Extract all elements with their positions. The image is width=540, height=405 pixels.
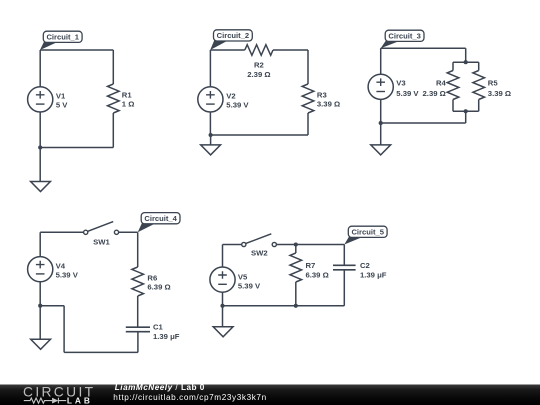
wire [209,50,211,87]
switch SW2 [242,234,277,247]
svg-text:1.39 μF: 1.39 μF [360,270,387,279]
wire [343,270,345,306]
CircuitLab logo squiggle wire with resistor and diode [24,398,66,404]
wire [40,231,83,233]
label Circuit_1 [40,31,82,50]
svg-text:6.39 Ω: 6.39 Ω [306,270,329,279]
value label V1 5 V [56,91,68,109]
wire [137,232,139,267]
svg-text:Circuit_1: Circuit_1 [46,32,79,41]
svg-text:1.39 μF: 1.39 μF [153,332,180,341]
label Circuit_4 [138,213,180,233]
wire [39,50,41,87]
wire [295,245,297,254]
wire [307,113,309,135]
capacitor C1 [126,327,150,332]
ground [371,145,391,155]
svg-text:5.39 V: 5.39 V [396,89,419,98]
wire [137,296,139,327]
svg-text:1 Ω: 1 Ω [122,100,135,109]
wire [137,332,139,353]
value label V2 5.39 V [226,91,249,109]
svg-text:http://circuitlab.com/cp7m23y3: http://circuitlab.com/cp7m23y3k3k7n [113,393,266,402]
wire [453,110,479,112]
wire [222,292,224,306]
value label V4 5.39 V [56,261,79,279]
wire [40,305,64,307]
node junction [38,304,42,308]
node junction [294,304,298,308]
node junction [379,121,383,125]
svg-text:R4: R4 [436,79,447,88]
svg-text:5.39 V: 5.39 V [56,271,79,280]
value label R5 3.39 Ω [488,79,511,98]
label Circuit_5 [344,226,387,244]
wire [223,305,345,307]
wire [452,100,454,112]
value label R4 2.39 Ω [423,79,447,98]
svg-text:5.39 V: 5.39 V [226,101,249,110]
ground [213,327,233,337]
footer url http://circuitlab.com/cp7m23y3k3k7n [113,393,266,402]
svg-text:V2: V2 [226,91,235,100]
svg-text:5.39 V: 5.39 V [238,282,261,291]
svg-text:R3: R3 [317,91,327,100]
value label R1 1 Ω [122,90,135,108]
wire [452,62,454,70]
value label R3 3.39 Ω [317,91,340,109]
wire [465,111,467,123]
wire [39,148,41,182]
wire [39,282,41,306]
voltage source V3 [368,74,393,99]
node junction [464,60,468,64]
voltage source V5 [210,267,235,292]
value label C2 1.39 μF [360,261,387,279]
wire [223,244,242,246]
value label R6 6.39 Ω [147,274,170,292]
svg-text:3.39 Ω: 3.39 Ω [317,100,340,109]
wire [39,232,41,256]
svg-text:2.39 Ω: 2.39 Ω [247,70,270,79]
wire [307,50,309,84]
svg-text:V4: V4 [56,261,66,270]
node junction [209,133,213,137]
resistor R2 [245,45,273,56]
resistor R5 [473,71,485,100]
value label R7 6.39 Ω [306,261,329,279]
svg-text:Circuit_3: Circuit_3 [388,31,421,40]
svg-text:3.39 Ω: 3.39 Ω [488,89,511,98]
value label V3 5.39 V [396,79,419,98]
svg-text:C2: C2 [360,261,370,270]
node junction [38,145,42,149]
svg-text:R5: R5 [488,79,499,88]
wire [63,306,65,353]
wire [380,123,382,145]
ground [201,145,221,155]
wire [465,48,467,62]
svg-text:R7: R7 [306,261,316,270]
wire [112,50,114,84]
svg-text:V5: V5 [238,272,248,281]
voltage source V2 [198,87,223,112]
value label R2 2.39 Ω [247,61,270,79]
wire [210,49,244,51]
label SW2 [251,249,268,258]
node junction [464,109,468,113]
footer bar background [0,385,540,405]
svg-text:C1: C1 [153,323,164,332]
svg-text:Circuit_5: Circuit_5 [351,227,384,236]
wire [381,122,466,124]
svg-text:Circuit_4: Circuit_4 [144,214,177,223]
node junction [220,304,224,308]
wire [380,48,382,74]
wire [40,147,113,149]
wire [64,351,138,353]
ground [31,182,51,192]
svg-text:V3: V3 [396,79,405,88]
wire [222,306,224,327]
switch SW1 [84,222,119,235]
wire [39,306,41,340]
resistor R4 [447,71,459,100]
svg-text:R2: R2 [254,61,264,70]
wire [112,113,114,148]
wire [343,245,345,266]
wire [478,62,480,70]
svg-text:V1: V1 [56,91,66,100]
resistor R1 [108,84,120,113]
wire [39,112,41,148]
wire [453,61,479,63]
svg-text:6.39 Ω: 6.39 Ω [147,282,170,291]
svg-text:LiamMcNeely / Lab 0: LiamMcNeely / Lab 0 [115,383,205,392]
wire [210,135,212,145]
wire [40,49,113,51]
wire [119,231,138,233]
svg-text:R6: R6 [147,274,157,283]
svg-text:SW2: SW2 [251,249,268,258]
svg-text:Circuit_2: Circuit_2 [217,31,250,40]
voltage source V1 [28,87,53,112]
wire [222,245,224,268]
wire [276,244,344,246]
svg-text:LAB: LAB [67,395,93,405]
label SW1 [93,237,110,246]
node junction [294,242,298,246]
resistor R7 [290,253,302,282]
wire [211,134,308,136]
wire [209,112,211,135]
wire [295,282,297,306]
svg-text:SW1: SW1 [93,237,110,246]
wire [381,47,466,49]
resistor R6 [132,267,144,296]
value label V5 5.39 V [238,272,261,290]
label Circuit_2 [210,30,252,50]
ground [31,339,51,349]
wire [380,99,382,123]
resistor R3 [302,84,314,113]
wire [478,100,480,112]
voltage source V4 [28,257,53,282]
svg-text:5 V: 5 V [56,101,68,110]
svg-text:2.39 Ω: 2.39 Ω [423,89,446,98]
wire [273,49,308,51]
value label C1 1.39 μF [153,323,180,341]
footer title LiamMcNeely / Lab 0 [115,383,205,392]
capacitor C2 [333,265,356,270]
CircuitLab logo text LAB [67,395,93,405]
CircuitLab logo text CIRCUIT [23,384,95,399]
svg-text:R1: R1 [122,90,133,99]
label Circuit_3 [381,30,424,48]
